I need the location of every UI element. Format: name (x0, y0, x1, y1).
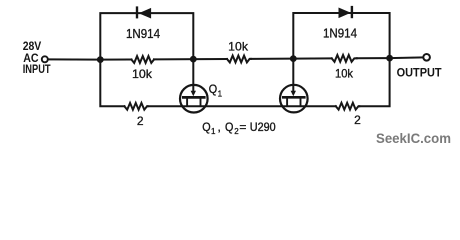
svg-text:INPUT: INPUT (23, 62, 51, 76)
svg-text:2: 2 (137, 114, 144, 128)
svg-text:Q: Q (202, 120, 210, 134)
svg-text:Q: Q (225, 120, 233, 134)
svg-text:10k: 10k (228, 39, 249, 53)
svg-text:1N914: 1N914 (323, 27, 357, 41)
svg-text:OUTPUT: OUTPUT (397, 66, 443, 80)
svg-text:Q: Q (209, 82, 217, 96)
svg-text:1: 1 (211, 127, 216, 136)
svg-text:10k: 10k (132, 67, 153, 81)
svg-text:U290: U290 (250, 120, 276, 134)
svg-text:=: = (239, 120, 246, 134)
svg-text:10k: 10k (335, 67, 354, 81)
svg-text:1N914: 1N914 (126, 27, 160, 41)
svg-text:2: 2 (354, 113, 361, 127)
svg-text:SeekIC.com: SeekIC.com (376, 131, 451, 146)
svg-text:1: 1 (218, 89, 223, 98)
svg-text:,: , (218, 120, 221, 134)
